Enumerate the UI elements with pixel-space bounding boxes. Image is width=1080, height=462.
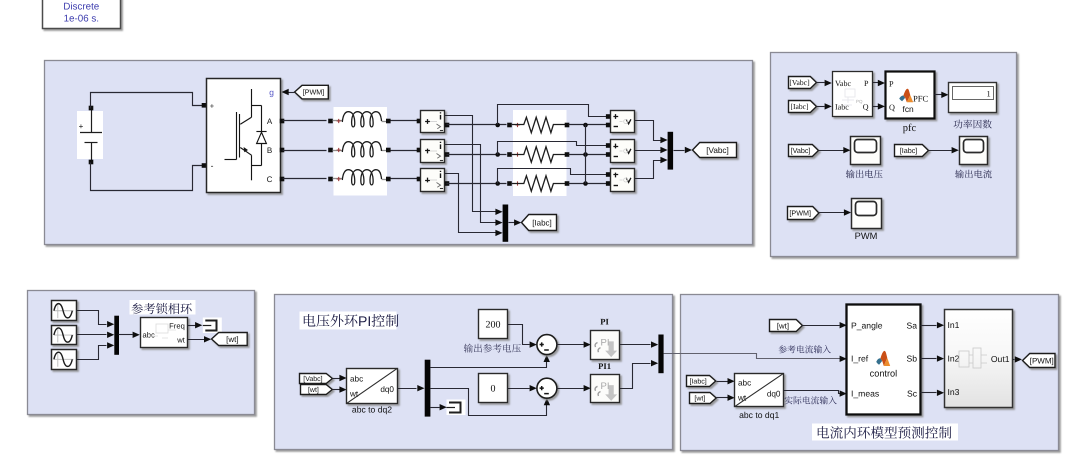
From tag [PWM] feeding gate g xyxy=(295,85,329,99)
sum block 1 xyxy=(537,335,557,355)
svg-text:PI: PI xyxy=(601,381,610,392)
PI controller block xyxy=(591,331,620,360)
star point junction C xyxy=(583,181,588,186)
svg-text:PFC: PFC xyxy=(913,94,929,104)
wire sum2 to PI1 xyxy=(557,388,584,390)
constant block 0 xyxy=(479,374,508,403)
wire [wt] to abc-dq1 xyxy=(717,397,728,399)
wire PI1 to output mux xyxy=(620,364,651,389)
From tag [Vabc] to voltage scope xyxy=(789,145,819,157)
series RL branch (inductor) LB xyxy=(333,150,343,152)
svg-text:0: 0 xyxy=(491,384,496,395)
svg-text:[PWM]: [PWM] xyxy=(789,209,811,218)
wire VC output to Vabc mux xyxy=(635,161,661,179)
active reactive power measurement block PQ xyxy=(833,72,873,117)
svg-text:[wt]: [wt] xyxy=(308,386,319,394)
svg-text:200: 200 xyxy=(486,320,501,331)
svg-text:[Iabc]: [Iabc] xyxy=(900,146,918,155)
wire 200 to sum1 xyxy=(508,325,530,345)
svg-text:PI1: PI1 xyxy=(598,361,611,371)
star point junction B xyxy=(583,152,588,157)
IGBT + diode symbol inside bridge xyxy=(225,89,267,180)
label output current xyxy=(955,170,992,179)
current measurement block IC xyxy=(421,169,445,192)
svg-text:Sc: Sc xyxy=(907,389,918,399)
svg-text:B: B xyxy=(267,146,272,155)
demux for dq0 components xyxy=(425,360,431,417)
svg-text:In2: In2 xyxy=(948,354,960,364)
wire PI to output mux xyxy=(620,344,651,346)
svg-text:PI: PI xyxy=(601,337,610,348)
wire reference current to control I_ref xyxy=(664,354,841,359)
load resistor RC xyxy=(515,181,519,185)
mux for phase voltages xyxy=(668,132,674,170)
wire control Sc to subsystem In3 xyxy=(921,392,937,394)
svg-text:PI: PI xyxy=(358,313,371,329)
star point junction A xyxy=(583,123,588,128)
voltage tap wire phase C to VC + input xyxy=(498,169,609,184)
From tag [Iabc] to PQ block xyxy=(789,101,817,113)
label current inner loop model predictive control title xyxy=(812,424,958,441)
wire PQ P output to pfc xyxy=(873,82,879,84)
svg-text:[wt]: [wt] xyxy=(226,335,238,344)
svg-text:[Iabc]: [Iabc] xyxy=(790,102,808,111)
Goto tag [PWM] xyxy=(1023,354,1056,368)
wire Vabc mux to Goto [Vabc] xyxy=(674,150,685,152)
wire inductor LB to current measurement xyxy=(391,150,419,152)
wire to voltage scope xyxy=(819,150,844,152)
svg-text:[wt]: [wt] xyxy=(777,321,789,330)
label actual current input xyxy=(785,396,837,404)
svg-text:abc to dq2: abc to dq2 xyxy=(352,405,392,415)
area panel: reference PLL xyxy=(28,291,255,415)
wire [Vabc] to abc-dq2 xyxy=(333,378,340,380)
wire DC- to bridge - xyxy=(91,163,203,191)
wire bridge C to inductor LC xyxy=(280,177,285,182)
wire control Sb to subsystem In2 xyxy=(921,358,937,360)
wire IB i-output to Iabc mux input 2 xyxy=(445,145,497,223)
wire VB output to Vabc mux xyxy=(635,150,661,152)
wire demux d to sum1 minus xyxy=(431,359,547,368)
svg-text:I_meas: I_meas xyxy=(851,389,879,399)
Goto tag [wt] xyxy=(212,333,248,346)
mux dq reference currents xyxy=(658,335,663,374)
wire bridge A to inductor LA xyxy=(280,119,285,124)
sine wave source 3 xyxy=(52,350,77,370)
From tag [Vabc] to abc-dq2 xyxy=(300,374,333,384)
wire [Iabc] to PQ xyxy=(817,106,825,108)
svg-text:Q: Q xyxy=(889,103,895,112)
scope block PWM xyxy=(852,199,882,229)
wire inductor LC to current measurement xyxy=(391,178,419,180)
From tag [wt] to abc-dq1 xyxy=(690,393,717,404)
svg-text:Iabc: Iabc xyxy=(835,103,849,112)
wire IA i-output to Iabc mux input 1 xyxy=(445,116,497,212)
wire 0 to sum2 xyxy=(508,388,530,390)
DC source + terminal port xyxy=(89,106,94,111)
mux for phase currents xyxy=(503,205,509,242)
svg-text:A: A xyxy=(267,117,273,126)
svg-text:[Vabc]: [Vabc] xyxy=(706,146,729,155)
bridge + port xyxy=(202,103,207,108)
wire resistor RC to star point and voltage block xyxy=(569,183,609,185)
svg-text:-: - xyxy=(211,161,214,171)
wire dq1 to control I_meas xyxy=(784,391,841,394)
svg-text:+: + xyxy=(210,102,215,111)
label voltage outer loop PI control title xyxy=(300,312,397,330)
wire VA output to Vabc mux xyxy=(635,121,661,141)
svg-text:wt: wt xyxy=(737,394,747,403)
svg-text:Freq: Freq xyxy=(169,321,185,330)
wire PWM tag to g port xyxy=(289,92,295,94)
series RL branch (inductor) LA xyxy=(333,120,343,122)
wire IC i-output to Iabc mux input 3 xyxy=(445,174,497,233)
wire [Iabc] to abc-dq1 xyxy=(717,381,728,383)
MATLAB Function block control xyxy=(847,305,921,415)
display block power factor xyxy=(949,83,997,113)
svg-text:[Vabc]: [Vabc] xyxy=(789,78,809,87)
svg-text:abc: abc xyxy=(350,375,363,384)
sine wave source 2 xyxy=(52,326,77,345)
junction node phase C xyxy=(495,181,500,186)
powergui block Discrete 1e-06 s. xyxy=(43,0,121,29)
DC voltage source E xyxy=(77,111,103,159)
svg-text:fcn: fcn xyxy=(903,104,915,114)
voltage tap wire phase A to VA + input xyxy=(498,105,609,125)
wire sine1 to mux xyxy=(77,311,107,325)
wire [wt] to abc-dq2 xyxy=(333,389,340,391)
svg-text:[wt]: [wt] xyxy=(694,395,705,403)
svg-text:pfc: pfc xyxy=(903,123,917,134)
load resistor RB xyxy=(515,152,519,156)
svg-text:wt: wt xyxy=(176,336,185,345)
svg-text:Vabc: Vabc xyxy=(835,79,851,88)
svg-text:+: + xyxy=(79,122,84,131)
voltage tap wire phase B to VB + input xyxy=(498,142,609,155)
transformation block abc to dq2 xyxy=(347,369,398,404)
load resistor RA xyxy=(515,123,519,127)
svg-text:Sa: Sa xyxy=(906,320,917,330)
From tag [Iabc] to current scope xyxy=(895,145,929,157)
PWM generator subsystem xyxy=(945,310,1013,408)
wire demux third to terminator xyxy=(431,407,440,409)
svg-text:I_ref: I_ref xyxy=(851,354,869,364)
svg-text:dq0: dq0 xyxy=(767,390,781,399)
star point vertical wire xyxy=(585,125,587,184)
Goto tag [Iabc] xyxy=(522,215,557,231)
wire to PWM scope xyxy=(819,212,845,214)
From tag [Iabc] to abc-dq1 xyxy=(687,376,716,387)
current measurement block IB xyxy=(421,140,445,163)
sine wave source 1 xyxy=(52,301,77,321)
wire to current scope xyxy=(929,150,952,152)
svg-text:Q: Q xyxy=(863,103,869,112)
MATLAB Function block pfc xyxy=(886,72,935,119)
svg-text:Out1: Out1 xyxy=(991,354,1010,364)
From tag [PWM] to PWM scope xyxy=(788,207,819,220)
svg-text:P_angle: P_angle xyxy=(851,320,883,330)
svg-text:[Iabc]: [Iabc] xyxy=(532,218,552,227)
wire subsystem Out1 to Goto [PWM] xyxy=(1013,359,1015,361)
label reference current input xyxy=(779,345,831,353)
wire current block C to load resistor RC xyxy=(447,183,507,185)
svg-text:control: control xyxy=(870,369,898,379)
wire PQ Q output to pfc xyxy=(873,106,879,108)
wire PLL wt to Goto [wt] xyxy=(188,339,205,341)
wire bridge B to inductor LB xyxy=(280,148,285,153)
wire pfc to display xyxy=(935,94,942,96)
terminator for Freq xyxy=(203,318,222,334)
junction node phase A xyxy=(495,123,500,128)
constant block 200 xyxy=(479,310,508,339)
terminator for zero-sequence xyxy=(447,400,466,416)
area panel: measurement / scopes xyxy=(771,53,1017,257)
area panel: voltage outer PI control loop xyxy=(275,295,673,450)
current measurement block IA xyxy=(421,111,445,133)
voltage measurement block VB xyxy=(611,140,635,163)
wire dq0 to demux xyxy=(398,388,417,390)
wire mux to PLL xyxy=(119,334,133,336)
area panel: main power circuit xyxy=(45,61,753,245)
wire resistor RA to star point and voltage block xyxy=(569,124,609,126)
junction node phase B xyxy=(495,152,500,157)
wire mux to Goto [Iabc] xyxy=(509,222,515,224)
PI1 controller block xyxy=(591,375,620,403)
svg-text:Sb: Sb xyxy=(906,354,917,364)
svg-text:P: P xyxy=(864,79,869,88)
label reference PLL title xyxy=(130,300,196,315)
wire PLL Freq to terminator xyxy=(188,325,196,327)
From tag [Vabc] to PQ block xyxy=(789,77,817,89)
series RL branch (inductor) LC xyxy=(333,178,343,180)
mux for reference three-phase xyxy=(114,316,119,355)
svg-text:[PWM]: [PWM] xyxy=(303,88,325,97)
scope block output current xyxy=(960,137,988,165)
svg-text:[Iabc]: [Iabc] xyxy=(690,378,707,386)
DC source - terminal port xyxy=(89,160,94,165)
wire [Vabc] to PQ xyxy=(817,82,825,84)
svg-text:PQ: PQ xyxy=(856,99,863,104)
svg-text:abc: abc xyxy=(738,379,751,388)
wire [wt] to P_angle xyxy=(803,325,840,327)
wire sum1 to PI xyxy=(557,344,584,346)
svg-text:C: C xyxy=(267,175,273,184)
svg-text:wt: wt xyxy=(349,390,359,399)
svg-text:In1: In1 xyxy=(948,320,960,330)
svg-text:P: P xyxy=(889,80,894,89)
svg-text:PWM: PWM xyxy=(855,231,878,241)
wire demux q to sum2 minus xyxy=(431,389,547,416)
svg-text:PI: PI xyxy=(600,317,609,327)
white patch behind load resistors xyxy=(513,110,567,196)
From tag [wt] to abc-dq2 xyxy=(301,385,333,395)
voltage measurement block VA xyxy=(611,111,635,133)
Goto tag [Vabc] xyxy=(693,143,737,158)
svg-text:[Vabc]: [Vabc] xyxy=(303,375,322,383)
PLL block xyxy=(141,318,188,348)
label power factor xyxy=(954,119,992,128)
scope block output voltage xyxy=(851,137,881,165)
wire sine3 to mux xyxy=(77,346,107,360)
area panel: current inner loop MPC xyxy=(681,295,1059,451)
wire sine2 to mux xyxy=(77,334,107,336)
svg-text:[PWM]: [PWM] xyxy=(1030,356,1054,365)
label output reference voltage xyxy=(464,344,521,353)
wire current block A to load resistor RA xyxy=(447,124,507,126)
sum block 2 xyxy=(537,378,557,398)
wire control Sa to subsystem In1 xyxy=(921,325,937,327)
svg-text:abc to dq1: abc to dq1 xyxy=(739,410,779,420)
wire DC+ to bridge + xyxy=(91,93,203,109)
svg-text:[Vabc]: [Vabc] xyxy=(791,146,811,155)
svg-text:dq0: dq0 xyxy=(380,385,394,394)
transformation block abc to dq1 xyxy=(735,374,784,407)
wire inductor LA to current measurement xyxy=(391,120,419,122)
From tag [wt] to control P_angle xyxy=(770,320,803,332)
svg-text:In3: In3 xyxy=(948,387,960,397)
wire resistor RB to star point and voltage block xyxy=(569,154,609,156)
white patch behind inductors xyxy=(334,107,388,196)
svg-text:abc: abc xyxy=(143,330,155,339)
universal bridge (IGBT inverter) U1 xyxy=(207,79,281,193)
wire current block B to load resistor RB xyxy=(447,154,507,156)
label output voltage xyxy=(846,170,883,179)
bridge - port xyxy=(202,163,207,168)
voltage measurement block VC xyxy=(611,169,635,192)
